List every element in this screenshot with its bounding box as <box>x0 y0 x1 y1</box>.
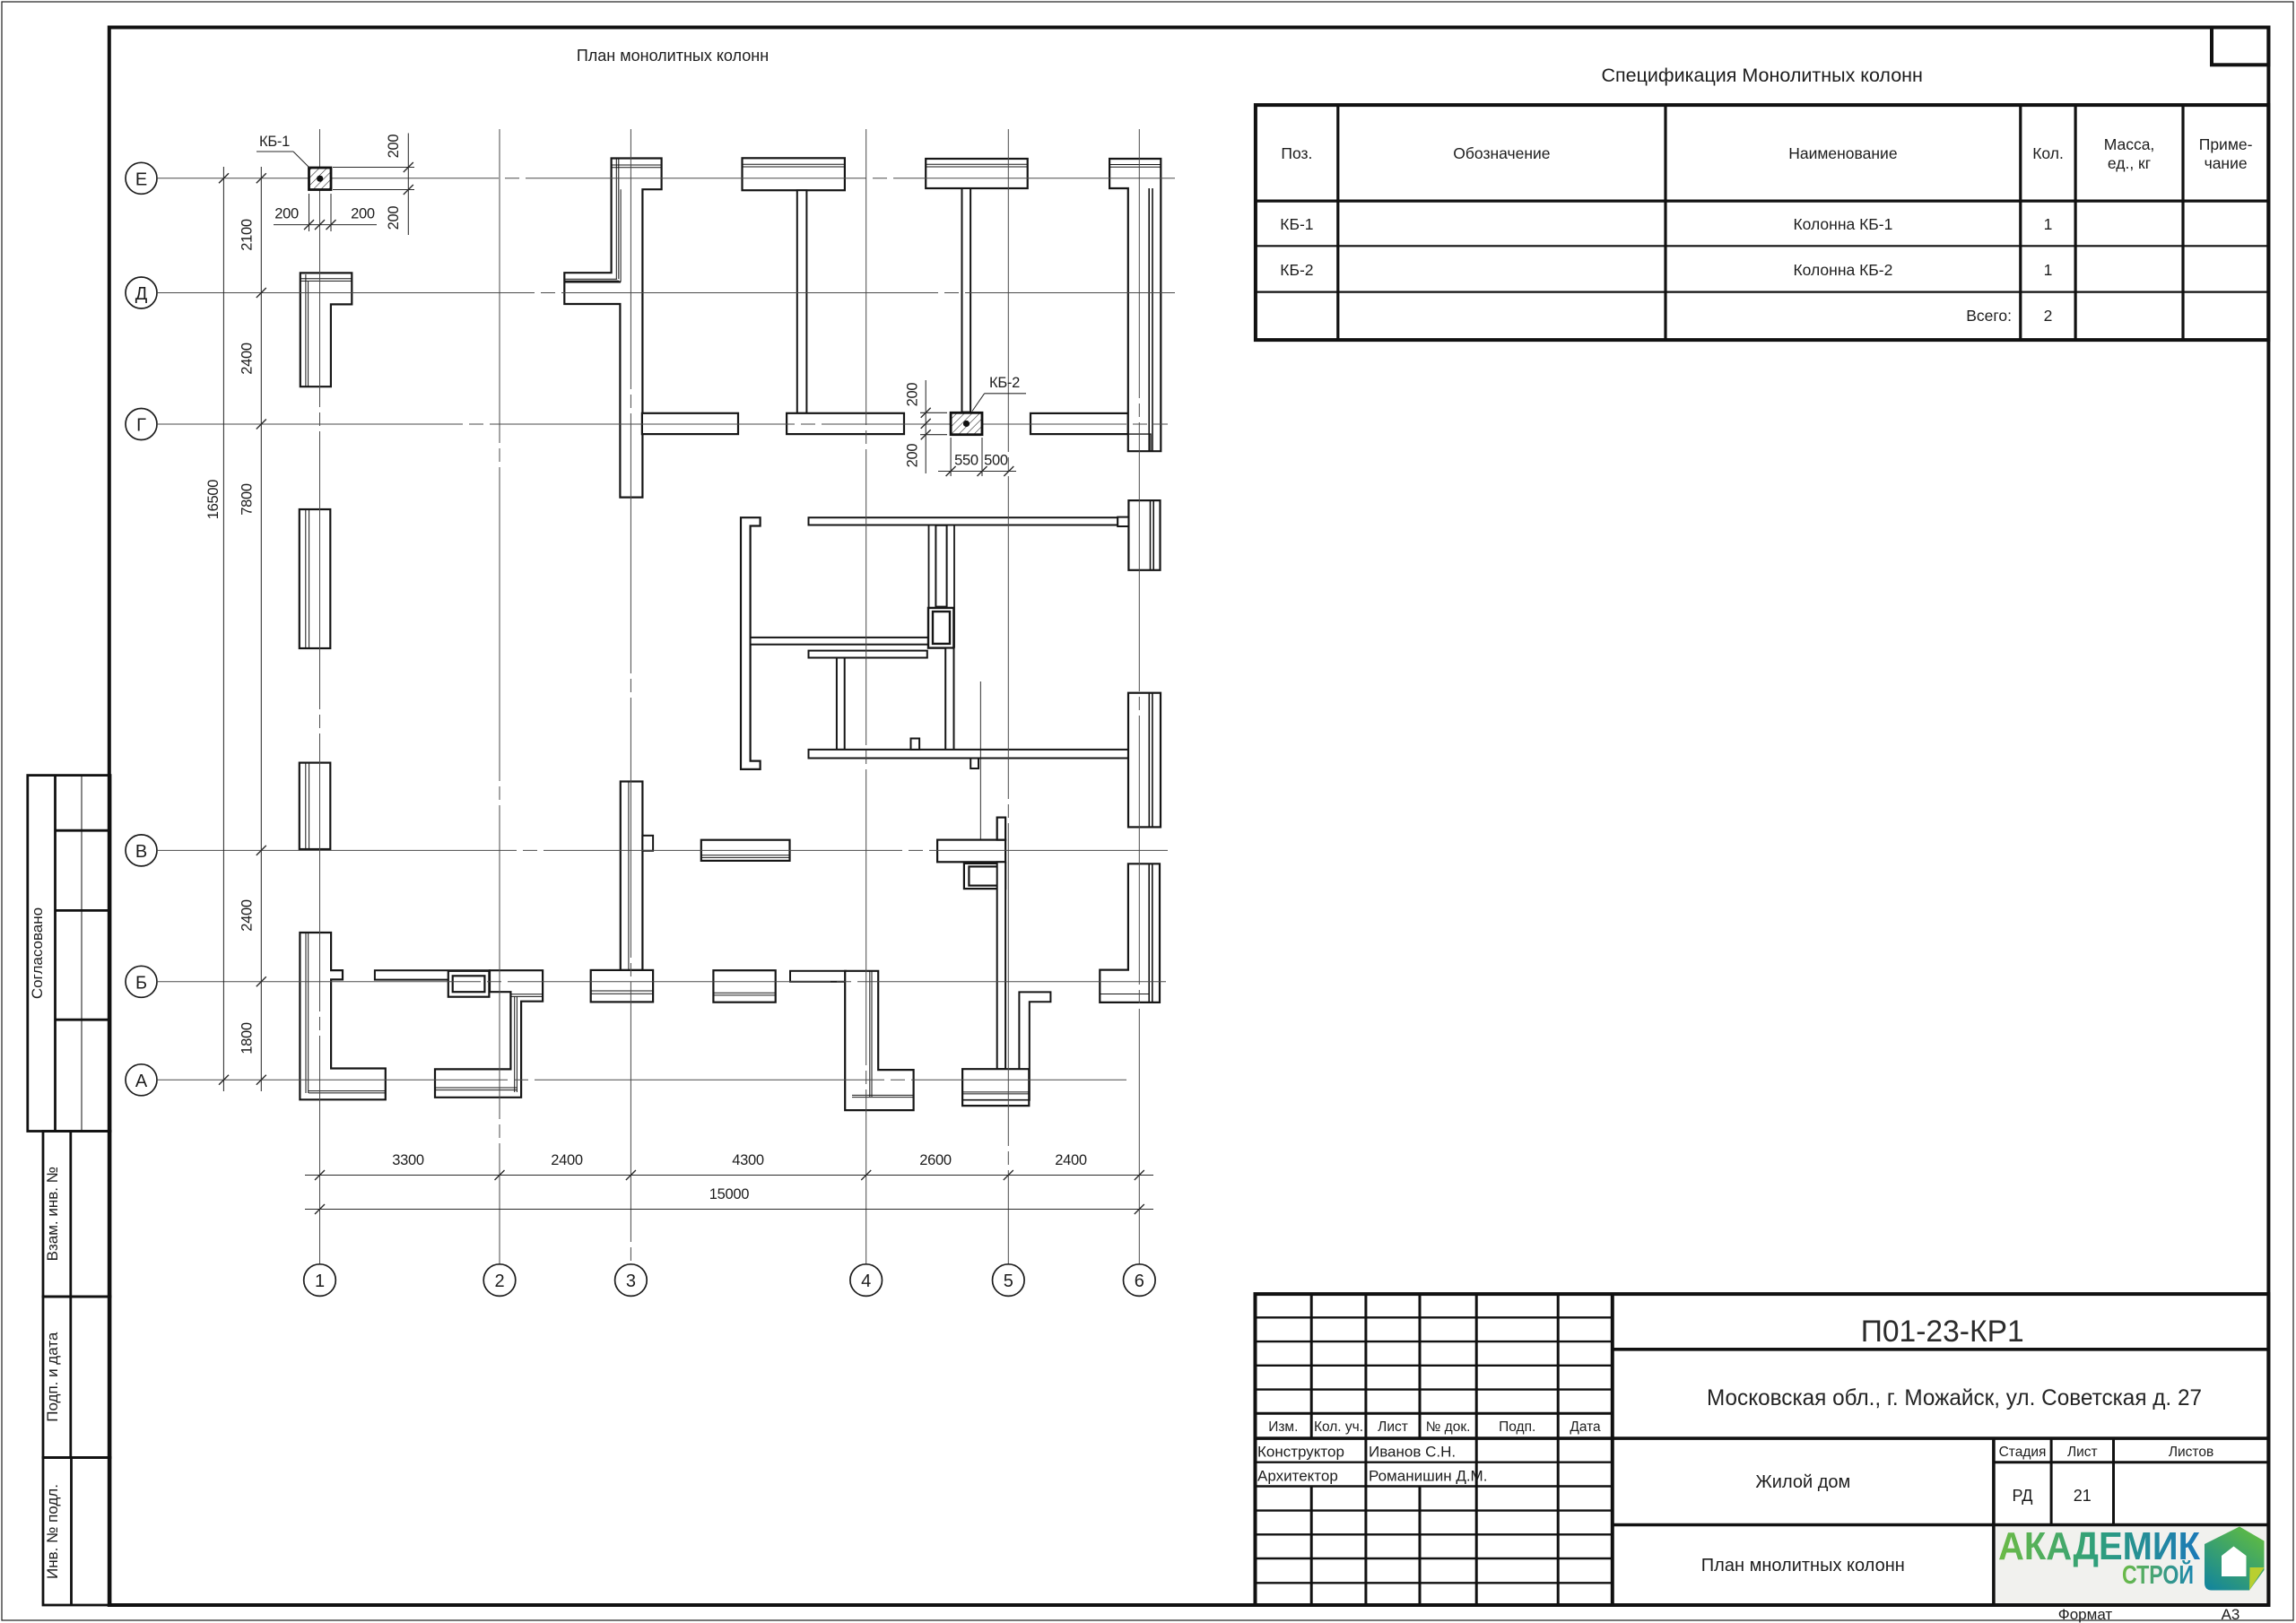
svg-text:Г: Г <box>136 416 146 436</box>
svg-text:ед., кг: ед., кг <box>2108 154 2151 172</box>
svg-text:200: 200 <box>386 206 402 230</box>
wall: long thin bar G-V <box>809 750 1129 759</box>
format stamp box top right <box>2212 28 2268 65</box>
svg-text:200: 200 <box>386 135 402 159</box>
svg-text:200: 200 <box>905 383 921 407</box>
wall: vertical wall below V bar <box>997 862 1005 1069</box>
title block vertical lines <box>1310 1294 1313 1438</box>
svg-text:Колонна КБ-1: Колонна КБ-1 <box>1793 215 1892 233</box>
wall: axis1 segment above V <box>300 763 331 849</box>
svg-text:2400: 2400 <box>551 1152 583 1168</box>
bottom dimension chain (spans) <box>305 1175 1153 1176</box>
wall: T-wall stem to KB-2 <box>962 188 971 412</box>
svg-text:КБ-1: КБ-1 <box>1280 215 1313 233</box>
title block horizontal lines left part <box>1256 1316 1613 1318</box>
wall: branch wall to long bar <box>837 658 845 750</box>
svg-text:2400: 2400 <box>239 343 256 375</box>
svg-text:РД: РД <box>2013 1487 2033 1505</box>
wall: J-wall axis4 B-to-A <box>845 971 913 1110</box>
svg-text:Инв. № подл.: Инв. № подл. <box>44 1484 61 1579</box>
signature rows <box>1257 1444 1487 1485</box>
axis bubble 6 <box>1124 1264 1156 1297</box>
svg-text:500: 500 <box>984 453 1008 469</box>
svg-text:В: В <box>135 842 147 862</box>
svg-text:Колонна КБ-2: Колонна КБ-2 <box>1793 261 1892 279</box>
svg-text:Кол. уч.: Кол. уч. <box>1314 1419 1363 1435</box>
svg-text:Согласовано: Согласовано <box>29 907 46 999</box>
column KB-2 <box>951 412 982 434</box>
axis line 4 <box>865 129 867 1263</box>
wall: axis-3 Z-wall E-to-G <box>564 159 661 498</box>
svg-text:КБ-2: КБ-2 <box>1280 261 1313 279</box>
wall: I-wall top bar axes 3-4 <box>743 158 845 190</box>
column KB-1 <box>309 168 332 190</box>
axis line B <box>158 981 1166 983</box>
svg-text:СТРОЙ: СТРОЙ <box>2122 1559 2194 1590</box>
svg-text:Подп.: Подп. <box>1499 1419 1535 1435</box>
svg-text:Обозначение: Обозначение <box>1453 144 1550 162</box>
svg-text:550: 550 <box>954 453 978 469</box>
axis line E <box>158 178 1175 179</box>
box Vzam inv <box>43 1132 110 1298</box>
svg-text:П01-23-КР1: П01-23-КР1 <box>1861 1315 2024 1349</box>
svg-text:Московская обл., г. Можайск, у: Московская обл., г. Можайск, ул. Советск… <box>1707 1385 2202 1410</box>
svg-text:Формат: Формат <box>2058 1606 2113 1623</box>
axis bubble 5 <box>993 1264 1025 1297</box>
svg-text:2400: 2400 <box>1055 1152 1087 1168</box>
svg-text:Подп. и дата: Подп. и дата <box>44 1332 61 1422</box>
wall: step wall with arm (axis5-6) <box>1019 992 1050 1099</box>
KB-2 vertical dim 200/200 <box>920 412 947 413</box>
wall: stub above V bar <box>997 818 1005 840</box>
wall: bar at B axis 3-4 <box>713 970 775 1002</box>
dimension line 16500 (left outer chain) <box>222 167 224 1091</box>
wall: axis1 segment G-mid <box>300 509 331 648</box>
logo house icon <box>2205 1527 2265 1591</box>
wall: up tab on long bar <box>911 739 920 750</box>
title block outer border <box>1256 1294 2269 1605</box>
svg-text:7800: 7800 <box>239 483 256 516</box>
wall: bar at V axes 3-4 <box>701 840 790 861</box>
svg-text:200: 200 <box>274 206 299 222</box>
svg-text:Изм.: Изм. <box>1268 1419 1298 1435</box>
axis bubble 2 <box>483 1264 516 1297</box>
axis bubble V <box>126 835 157 866</box>
wall: R4 wall at axis6 V-to-B <box>1100 864 1160 1002</box>
KB-1 vertical dim 200/200 <box>333 167 414 169</box>
svg-text:21: 21 <box>2074 1487 2092 1505</box>
svg-text:1: 1 <box>315 1271 325 1291</box>
wall: bar at V axes 4-5 <box>937 840 1005 863</box>
svg-text:2100: 2100 <box>239 219 256 251</box>
wall: R1 wall at axis6 E-to-G <box>1109 159 1161 451</box>
svg-text:Конструктор: Конструктор <box>1257 1444 1344 1461</box>
svg-text:6: 6 <box>1135 1271 1144 1291</box>
svg-text:16500: 16500 <box>205 480 222 520</box>
axis bubble A <box>126 1064 157 1096</box>
axis bubble G <box>126 409 157 440</box>
svg-text:Д: Д <box>135 284 148 304</box>
axis line 1 <box>319 129 321 1263</box>
shaft box <box>928 608 953 648</box>
wall: C-wall between 1-2 B-to-A <box>435 970 543 1098</box>
svg-text:4300: 4300 <box>732 1152 764 1168</box>
wall: stem below shaft <box>945 648 953 750</box>
svg-text:1: 1 <box>2044 215 2053 233</box>
wall: hanging wall above shaft <box>935 525 946 607</box>
svg-text:200: 200 <box>351 206 375 222</box>
thin reference line <box>979 681 981 839</box>
svg-text:2400: 2400 <box>239 899 256 932</box>
spec table header texts <box>1281 135 2252 172</box>
wall: down tab on long bar <box>970 759 978 769</box>
wall: thin edge left of shaft <box>928 525 930 608</box>
svg-text:Романишин Д.М.: Романишин Д.М. <box>1369 1467 1487 1484</box>
wall: L-wall axis1 at D <box>300 273 352 386</box>
logo cell background <box>1996 1527 2266 1603</box>
axis bubble B <box>126 966 157 997</box>
bottom dimension overall 15000 <box>305 1209 1153 1211</box>
box Inv N podl <box>43 1458 110 1606</box>
title block horizontal lines right part <box>1613 1348 2269 1351</box>
approval box Soglasovano <box>28 776 110 1132</box>
svg-text:Жилой дом: Жилой дом <box>1755 1472 1850 1492</box>
axis bubble 3 <box>615 1264 648 1297</box>
dimension line left inner chain <box>260 167 262 1091</box>
stage header <box>1999 1445 2214 1460</box>
wall: R2 tab <box>1118 517 1128 526</box>
wall: mid wall upper <box>751 638 928 645</box>
svg-text:КБ-2: КБ-2 <box>989 375 1020 391</box>
wall: bar at B axis 3 <box>591 970 653 1002</box>
wall: axis1 L-wall B-to-A <box>300 933 385 1099</box>
svg-text:Дата: Дата <box>1570 1419 1601 1435</box>
wall: R3 wall at axis6 <box>1128 693 1161 828</box>
wall: T-wall top bar axes 4-5 <box>926 159 1028 188</box>
svg-text:200: 200 <box>905 444 921 468</box>
svg-text:4: 4 <box>861 1271 871 1291</box>
wall: mid wall lower <box>809 651 927 658</box>
svg-text:3: 3 <box>626 1271 636 1291</box>
wall: tab at V on axis3 wall <box>642 836 653 851</box>
svg-text:План монолитных колонн: План монолитных колонн <box>577 47 769 65</box>
wall: thin edge right of shaft <box>953 525 955 648</box>
wall: G bar under I-wall <box>787 413 904 434</box>
svg-text:Архитектор: Архитектор <box>1257 1467 1338 1484</box>
svg-text:1: 1 <box>2044 261 2053 279</box>
spec table row lines <box>1256 200 2268 203</box>
wall: mid-block top wall <box>809 517 1118 525</box>
spec table column lines <box>1336 105 1339 340</box>
svg-text:Листов: Листов <box>2169 1445 2213 1460</box>
svg-text:2: 2 <box>494 1271 504 1291</box>
axis bubble 4 <box>850 1264 883 1297</box>
svg-text:2600: 2600 <box>919 1152 952 1168</box>
axis bubble E <box>126 162 157 194</box>
svg-text:Стадия: Стадия <box>1999 1445 2047 1460</box>
svg-text:А3: А3 <box>2222 1606 2240 1623</box>
wall: axis3 wall above B <box>621 782 643 970</box>
axis bubble 1 <box>304 1264 336 1297</box>
axis line 2 <box>499 129 500 1263</box>
axis line D <box>158 292 1175 294</box>
svg-text:5: 5 <box>1004 1271 1013 1291</box>
axis line 6 <box>1138 129 1140 1263</box>
KB-2 horizontal dim 550/500 <box>950 438 952 476</box>
axis line V <box>158 849 1168 851</box>
svg-text:Е: Е <box>135 169 147 189</box>
axis bubble D <box>126 277 157 308</box>
box Podp i data <box>43 1297 110 1458</box>
svg-text:КБ-1: КБ-1 <box>259 134 290 150</box>
svg-text:Лист: Лист <box>2067 1445 2098 1460</box>
spec table data rows <box>1280 215 2052 325</box>
svg-text:План мнолитных колонн: План мнолитных колонн <box>1701 1556 1905 1575</box>
svg-text:15000: 15000 <box>709 1186 750 1202</box>
svg-text:чание: чание <box>2205 154 2248 172</box>
window block at B axis 1-2 <box>448 971 490 997</box>
spec table outer border <box>1256 105 2268 340</box>
svg-text:Всего:: Всего: <box>1966 307 2012 325</box>
wall: thin bar at B before axis4 <box>790 971 846 982</box>
svg-text:А: А <box>135 1072 148 1091</box>
wall: thin bar at B axis 1-2 <box>375 970 490 979</box>
wall: G bar arm of Z-wall <box>642 413 738 434</box>
axis line 5 <box>1007 129 1009 1263</box>
axis line G <box>158 423 1168 425</box>
wall: mid-block bracket wall <box>741 517 761 769</box>
svg-text:Спецификация Монолитных колонн: Спецификация Монолитных колонн <box>1601 65 1922 86</box>
svg-text:Приме-: Приме- <box>2199 135 2253 153</box>
axis line A <box>158 1079 1126 1081</box>
svg-text:№ док.: № док. <box>1426 1419 1471 1435</box>
window block below V bar <box>964 864 1005 889</box>
svg-text:Наименование: Наименование <box>1788 144 1897 162</box>
wall: G bar right of KB-2 <box>1031 413 1128 434</box>
svg-text:Иванов С.Н.: Иванов С.Н. <box>1369 1444 1456 1461</box>
header row labels <box>1268 1419 1601 1435</box>
wall: A-axis foot bar axis5 <box>962 1069 1029 1106</box>
svg-text:1800: 1800 <box>239 1022 256 1055</box>
svg-text:Взам. инв. №: Взам. инв. № <box>44 1167 61 1261</box>
svg-text:2: 2 <box>2044 307 2053 325</box>
svg-text:Поз.: Поз. <box>1281 144 1312 162</box>
KB-1 horizontal dim 200/200 <box>309 194 310 231</box>
axis line 3 <box>630 129 631 1263</box>
wall: R2 block below G <box>1128 500 1160 570</box>
svg-text:3300: 3300 <box>392 1152 424 1168</box>
svg-text:Лист: Лист <box>1378 1419 1408 1435</box>
svg-text:Масса,: Масса, <box>2104 135 2155 153</box>
svg-text:Кол.: Кол. <box>2032 144 2064 162</box>
svg-text:Б: Б <box>135 973 147 993</box>
wall: I-wall stem <box>797 190 807 413</box>
